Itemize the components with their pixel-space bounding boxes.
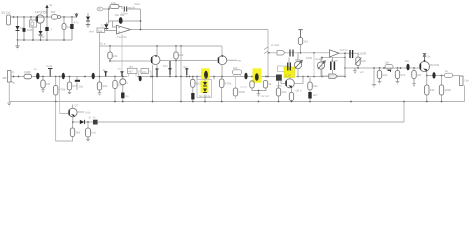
wire vref long run — [131, 29, 269, 31]
svg-text:0V: 0V — [41, 35, 45, 39]
wire tap x374 — [373, 68, 375, 84]
pot P1 — [294, 61, 301, 68]
diode D5 — [203, 82, 207, 86]
svg-text:100k: 100k — [238, 90, 245, 94]
highlight yellow big — [284, 67, 295, 78]
wire drop x181 — [180, 46, 182, 102]
svg-text:b: b — [127, 81, 129, 85]
dark box U3 — [276, 75, 282, 81]
resistor R11 — [99, 77, 101, 83]
wire jack gnd — [464, 86, 466, 102]
resistor R20 — [250, 81, 254, 88]
switch tap K1 — [264, 47, 268, 54]
transistor Q3 — [218, 56, 227, 65]
ground D3 — [86, 25, 90, 28]
resistor R32 — [441, 76, 443, 102]
ground R11 — [98, 90, 102, 96]
test point TP1 — [48, 69, 53, 77]
capacitor C27 — [308, 92, 311, 99]
wire P1 leads — [297, 53, 299, 77]
capacitor C12 — [139, 76, 142, 81]
resistor R9 — [55, 77, 57, 102]
box clipping outline — [197, 80, 212, 98]
resistor R13 box — [128, 68, 138, 73]
svg-text:1M: 1M — [417, 73, 422, 77]
svg-text:1u: 1u — [103, 68, 107, 72]
svg-text:47u: 47u — [74, 21, 79, 25]
wire ground bus main — [9, 101, 464, 103]
wire U1 minus stub — [113, 21, 117, 27]
svg-text:3k9: 3k9 — [75, 131, 80, 135]
node y61 junctions — [109, 60, 177, 62]
wire R23 drop — [300, 45, 302, 53]
capacitor C26 — [432, 72, 435, 78]
resistor R34 — [309, 78, 311, 93]
node seg3 junctions — [307, 76, 346, 78]
svg-text:470k: 470k — [225, 82, 232, 86]
svg-text:Vout: Vout — [134, 2, 140, 6]
resistor R12 — [114, 77, 116, 102]
resistor R18 — [235, 77, 237, 89]
resistor R35 — [70, 128, 74, 137]
diode D1 — [16, 26, 20, 30]
transistor Q5 — [420, 62, 430, 72]
wire Q7 collector — [72, 105, 74, 108]
svg-text:1/2 IC: 1/2 IC — [340, 48, 347, 52]
svg-text:1k: 1k — [268, 82, 272, 86]
svg-text:5v a: 5v a — [100, 42, 106, 46]
box dark Z1 — [93, 120, 98, 125]
wire vref down — [267, 30, 269, 77]
svg-text:9V: 9V — [98, 8, 101, 11]
wire base feed — [60, 112, 69, 114]
resistor R2 — [62, 24, 66, 30]
node emitter junction — [72, 121, 74, 123]
wire out line — [427, 75, 460, 77]
svg-text:Ge diode: Ge diode — [199, 94, 211, 98]
svg-text:100u: 100u — [27, 28, 34, 32]
svg-text:SW: SW — [51, 10, 56, 14]
resistor R3 — [110, 5, 119, 9]
polarity mark — [388, 70, 391, 72]
battery B1 — [7, 15, 11, 25]
node K junction — [268, 52, 270, 54]
wire box right drop — [344, 58, 346, 77]
diode D4 — [104, 24, 108, 28]
pot P3 — [357, 53, 359, 57]
capacitor C18 — [255, 73, 259, 80]
capacitor C24 — [350, 50, 353, 58]
resistor R24 — [289, 93, 293, 101]
svg-text:Q7: Q7 — [75, 104, 79, 108]
wire C1 branch — [23, 17, 25, 40]
resistor R19 box — [233, 70, 242, 75]
svg-text:4u7: 4u7 — [313, 93, 318, 97]
svg-text:led: led — [92, 131, 96, 135]
wire supply rail mid — [100, 46, 223, 56]
capacitor C3 — [45, 27, 48, 31]
resistor R25 — [278, 81, 280, 101]
svg-text:D: D — [102, 24, 104, 28]
svg-text:9v: 9v — [50, 3, 54, 7]
wire jack gnd left — [8, 82, 10, 102]
transistor Q2 — [151, 56, 160, 65]
ground R27 — [378, 79, 382, 85]
node U junction — [258, 90, 260, 92]
pot P2 — [317, 62, 324, 69]
svg-text:10k: 10k — [98, 29, 103, 33]
capacitor C2 — [70, 24, 73, 29]
wire gnd stub — [17, 40, 19, 46]
svg-text:LDR: LDR — [285, 74, 291, 78]
node mid junctions — [196, 76, 269, 78]
svg-text:4u: 4u — [125, 94, 129, 98]
capacitor C20 — [168, 61, 171, 75]
node rail junctions — [109, 45, 182, 47]
node bus junctions — [55, 101, 443, 103]
supply symbol T1 — [298, 30, 302, 38]
node y68 junctions — [357, 67, 415, 69]
svg-text:47k: 47k — [400, 73, 405, 77]
svg-text:0v ref: 0v ref — [262, 94, 269, 98]
wire C2 branch — [71, 17, 73, 40]
diode LED1 — [87, 122, 89, 128]
svg-text:Q6 b: Q6 b — [296, 89, 303, 93]
wire collector tap — [46, 8, 48, 18]
wire C3 branch sw — [46, 17, 48, 27]
wire Q6 base — [281, 81, 285, 84]
ground GND1 — [16, 46, 20, 49]
svg-text:2k2: 2k2 — [303, 40, 308, 44]
wire drop x122 — [121, 34, 123, 72]
capacitor C22 dark — [288, 63, 291, 71]
svg-text:Gnd: Gnd — [47, 64, 53, 68]
capacitor C10 — [120, 72, 123, 77]
wire vref resistor drop — [99, 33, 101, 77]
diode D7 — [80, 120, 85, 124]
ground R10 — [68, 92, 71, 93]
wire D2 to bus — [40, 35, 42, 40]
wire mid rail — [109, 20, 141, 22]
resistor R5 — [109, 46, 111, 61]
svg-text:10k: 10k — [233, 66, 238, 70]
svg-text:10k: 10k — [111, 1, 116, 5]
capacitor C25 — [406, 64, 409, 71]
capacitor C4 — [124, 7, 126, 12]
node box corners — [321, 57, 346, 69]
resistor R10 — [69, 77, 71, 93]
capacitor C11 electrolytic — [92, 73, 95, 79]
svg-text:9V DC: 9V DC — [2, 11, 12, 15]
highlight yellow diodes — [201, 81, 209, 94]
svg-text:15k: 15k — [430, 88, 435, 92]
resistor R4 — [97, 28, 105, 33]
capacitor C9 — [104, 72, 107, 77]
wire ground bus pwr — [18, 39, 73, 41]
node label 9V oval — [97, 7, 103, 11]
svg-text:.1: .1 — [50, 28, 53, 32]
ground U pair — [257, 91, 261, 97]
resistor R16 — [192, 77, 194, 80]
wire yellow top — [288, 58, 290, 63]
svg-text:22k: 22k — [382, 73, 387, 77]
wire out rail y68 — [345, 67, 420, 69]
capacitor C5 electrolytic — [119, 17, 123, 24]
label box W1 — [278, 66, 289, 72]
node out junctions — [426, 75, 442, 77]
wire Q1 emitter — [40, 23, 42, 31]
svg-text:to sw2: to sw2 — [271, 43, 280, 47]
node junctions vrefmid — [300, 52, 315, 54]
capacitor C17 — [244, 73, 247, 80]
ground LED1 — [86, 137, 90, 142]
svg-text:10n: 10n — [163, 64, 168, 68]
svg-text:10k: 10k — [361, 59, 366, 63]
diode D2 — [39, 31, 43, 35]
svg-text:0.6v: 0.6v — [85, 111, 91, 115]
transistor Q7 — [69, 108, 78, 117]
diode D3 zener — [87, 13, 89, 16]
op-amp U2 — [330, 50, 340, 57]
trimmer TR1 — [122, 77, 124, 79]
resistor R33 box — [445, 73, 453, 77]
input jack J1 — [8, 71, 12, 83]
wire Q3 emitter — [221, 65, 223, 77]
svg-text:10u: 10u — [405, 59, 410, 63]
wire C3 to bus — [46, 31, 48, 40]
resistor R8 — [42, 77, 44, 81]
svg-text:10k: 10k — [102, 84, 107, 88]
transistor Q6 — [285, 79, 294, 88]
resistor R30 — [413, 68, 415, 71]
svg-text:pre: pre — [129, 64, 133, 68]
wire stage bus y61 — [110, 60, 217, 63]
capacitor C23 — [331, 62, 335, 71]
ground R8 — [41, 88, 45, 93]
wire U2 out — [339, 52, 358, 54]
highlight yellow C18 — [253, 68, 262, 83]
node D7 junction — [87, 121, 89, 123]
ground GND2 — [7, 103, 11, 106]
capacitor C16 — [204, 71, 208, 79]
transistor Q1 — [36, 15, 44, 23]
svg-text:10k: 10k — [113, 54, 118, 58]
svg-text:10k: 10k — [313, 84, 318, 88]
svg-text:470k: 470k — [59, 88, 66, 92]
switch SW1 — [52, 15, 58, 20]
svg-text:Level: Level — [359, 52, 367, 56]
svg-text:4n7: 4n7 — [183, 65, 188, 69]
wire Q7 emitter — [72, 117, 74, 128]
ground stub P3 — [353, 68, 357, 74]
resistor R28 box — [385, 65, 393, 69]
wire D1 branch — [17, 17, 19, 40]
capacitor C15b — [191, 93, 194, 100]
node main junctions left — [13, 76, 194, 78]
wire diode to opamp — [105, 23, 117, 31]
ground R30 — [412, 79, 416, 87]
svg-text:sw: sw — [238, 59, 242, 63]
tag R26 — [329, 74, 338, 78]
capacitor C7 electrolytic — [62, 73, 65, 79]
svg-text:Si .7v: Si .7v — [89, 116, 97, 120]
resistor R6 — [175, 46, 177, 77]
wire drop x314 — [313, 53, 315, 77]
wire rail 9V — [11, 16, 78, 18]
node bus junctions — [17, 39, 65, 41]
wire loop left — [56, 102, 73, 142]
wire main signal — [11, 76, 197, 78]
svg-text:vol: vol — [360, 70, 364, 74]
wire Q2 emitter — [152, 65, 154, 102]
node junction — [108, 8, 110, 10]
capacitor C6 electrolytic — [36, 73, 39, 80]
svg-text:9v: 9v — [428, 55, 432, 59]
svg-text:1M: 1M — [46, 82, 51, 86]
diode D6 — [203, 89, 207, 93]
box tone network — [322, 58, 345, 77]
op-amp U1 — [117, 25, 131, 34]
jack J2 — [460, 76, 464, 86]
svg-text:100k: 100k — [444, 88, 451, 92]
resistor R13b box — [141, 69, 149, 74]
svg-text:In: In — [12, 70, 15, 74]
node rail junctions — [13, 16, 73, 18]
ground tap — [372, 84, 376, 87]
ground R29 — [396, 79, 400, 85]
capacitor C19 — [290, 50, 293, 57]
node out junction — [140, 29, 142, 31]
wire divider branch — [108, 9, 110, 23]
wire P2 leads — [320, 58, 322, 77]
svg-text:8k2: 8k2 — [196, 81, 201, 85]
resistor R31 — [426, 76, 428, 102]
supply arrow A1 — [45, 5, 48, 9]
capacitor C1 — [23, 28, 26, 32]
svg-text:TIP3055: TIP3055 — [35, 11, 48, 15]
wire Q5 emitter — [426, 72, 428, 76]
svg-text:1k: 1k — [445, 69, 449, 73]
svg-text:10u: 10u — [79, 85, 84, 89]
tag R22 — [277, 51, 285, 55]
capacitor C14 — [156, 65, 158, 77]
svg-text:reg 9v: reg 9v — [128, 6, 136, 10]
capacitor C8 polarized — [76, 77, 78, 81]
resistor R27 — [379, 68, 381, 71]
svg-text:Out: Out — [465, 79, 470, 83]
resistor R21 — [263, 81, 267, 89]
svg-text:4k7: 4k7 — [128, 70, 133, 74]
highlight yellow C16 — [201, 68, 210, 79]
wire Q6 collector feedback — [294, 77, 303, 84]
supply arrow Q5 — [423, 54, 427, 62]
capacitor C21 — [185, 69, 188, 75]
wire 9V feed — [103, 7, 141, 10]
wire R2 branch — [63, 17, 65, 40]
wire main mid segment — [197, 76, 277, 78]
wire vertical vref — [140, 9, 142, 30]
svg-text:Vref: Vref — [89, 30, 94, 34]
wire R18 stub — [236, 87, 248, 99]
svg-text:22n: 22n — [142, 70, 147, 74]
wire diode chain — [204, 77, 206, 102]
svg-text:BC549: BC549 — [431, 63, 440, 67]
supply arrow A2 — [75, 13, 78, 17]
svg-text:10u 16v: 10u 16v — [115, 13, 126, 17]
wire midvref run — [269, 52, 329, 54]
wire Q6 emitter — [291, 88, 293, 101]
wire P3 bottom — [357, 66, 359, 69]
node junction mid — [140, 20, 142, 22]
box bias network — [30, 20, 37, 27]
svg-text:10k: 10k — [385, 61, 390, 65]
wire box branch — [31, 17, 33, 40]
wire bottom long — [73, 102, 404, 123]
svg-text:opto: opto — [277, 84, 283, 88]
wire U pair — [252, 88, 266, 91]
resistor R23 — [298, 38, 302, 45]
svg-text:1u: 1u — [34, 67, 38, 71]
svg-text:tone: tone — [315, 57, 321, 61]
svg-text:100k: 100k — [306, 56, 313, 60]
wire main seg3 — [296, 76, 345, 78]
svg-text:10k: 10k — [281, 90, 286, 94]
resistor R7 — [24, 74, 32, 79]
resistor R17 — [221, 77, 223, 102]
svg-text:1u: 1u — [118, 67, 122, 71]
wire base drop x59.5 — [59, 77, 61, 114]
resistor R29 — [397, 68, 399, 71]
svg-text:100R: 100R — [24, 70, 32, 74]
